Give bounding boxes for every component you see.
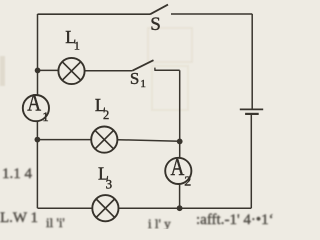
- svg-text:3: 3: [106, 177, 113, 192]
- svg-text:2: 2: [103, 108, 109, 122]
- svg-text:i l' y: i l' y: [148, 216, 171, 229]
- svg-text:1: 1: [74, 39, 80, 53]
- svg-text:2: 2: [184, 175, 191, 190]
- svg-text:L.W 1: L.W 1: [0, 210, 38, 226]
- svg-text:A: A: [27, 89, 41, 116]
- svg-text:S: S: [150, 14, 161, 35]
- svg-text:S: S: [130, 69, 139, 88]
- svg-text:1.1 4: 1.1 4: [2, 166, 33, 182]
- svg-text:1: 1: [140, 78, 146, 90]
- svg-text:il 'i': il 'i': [46, 215, 65, 229]
- svg-text:A: A: [170, 154, 184, 181]
- svg-text::afft.-1' 4·•1‘: :afft.-1' 4·•1‘: [196, 212, 274, 228]
- svg-text:1: 1: [42, 110, 48, 124]
